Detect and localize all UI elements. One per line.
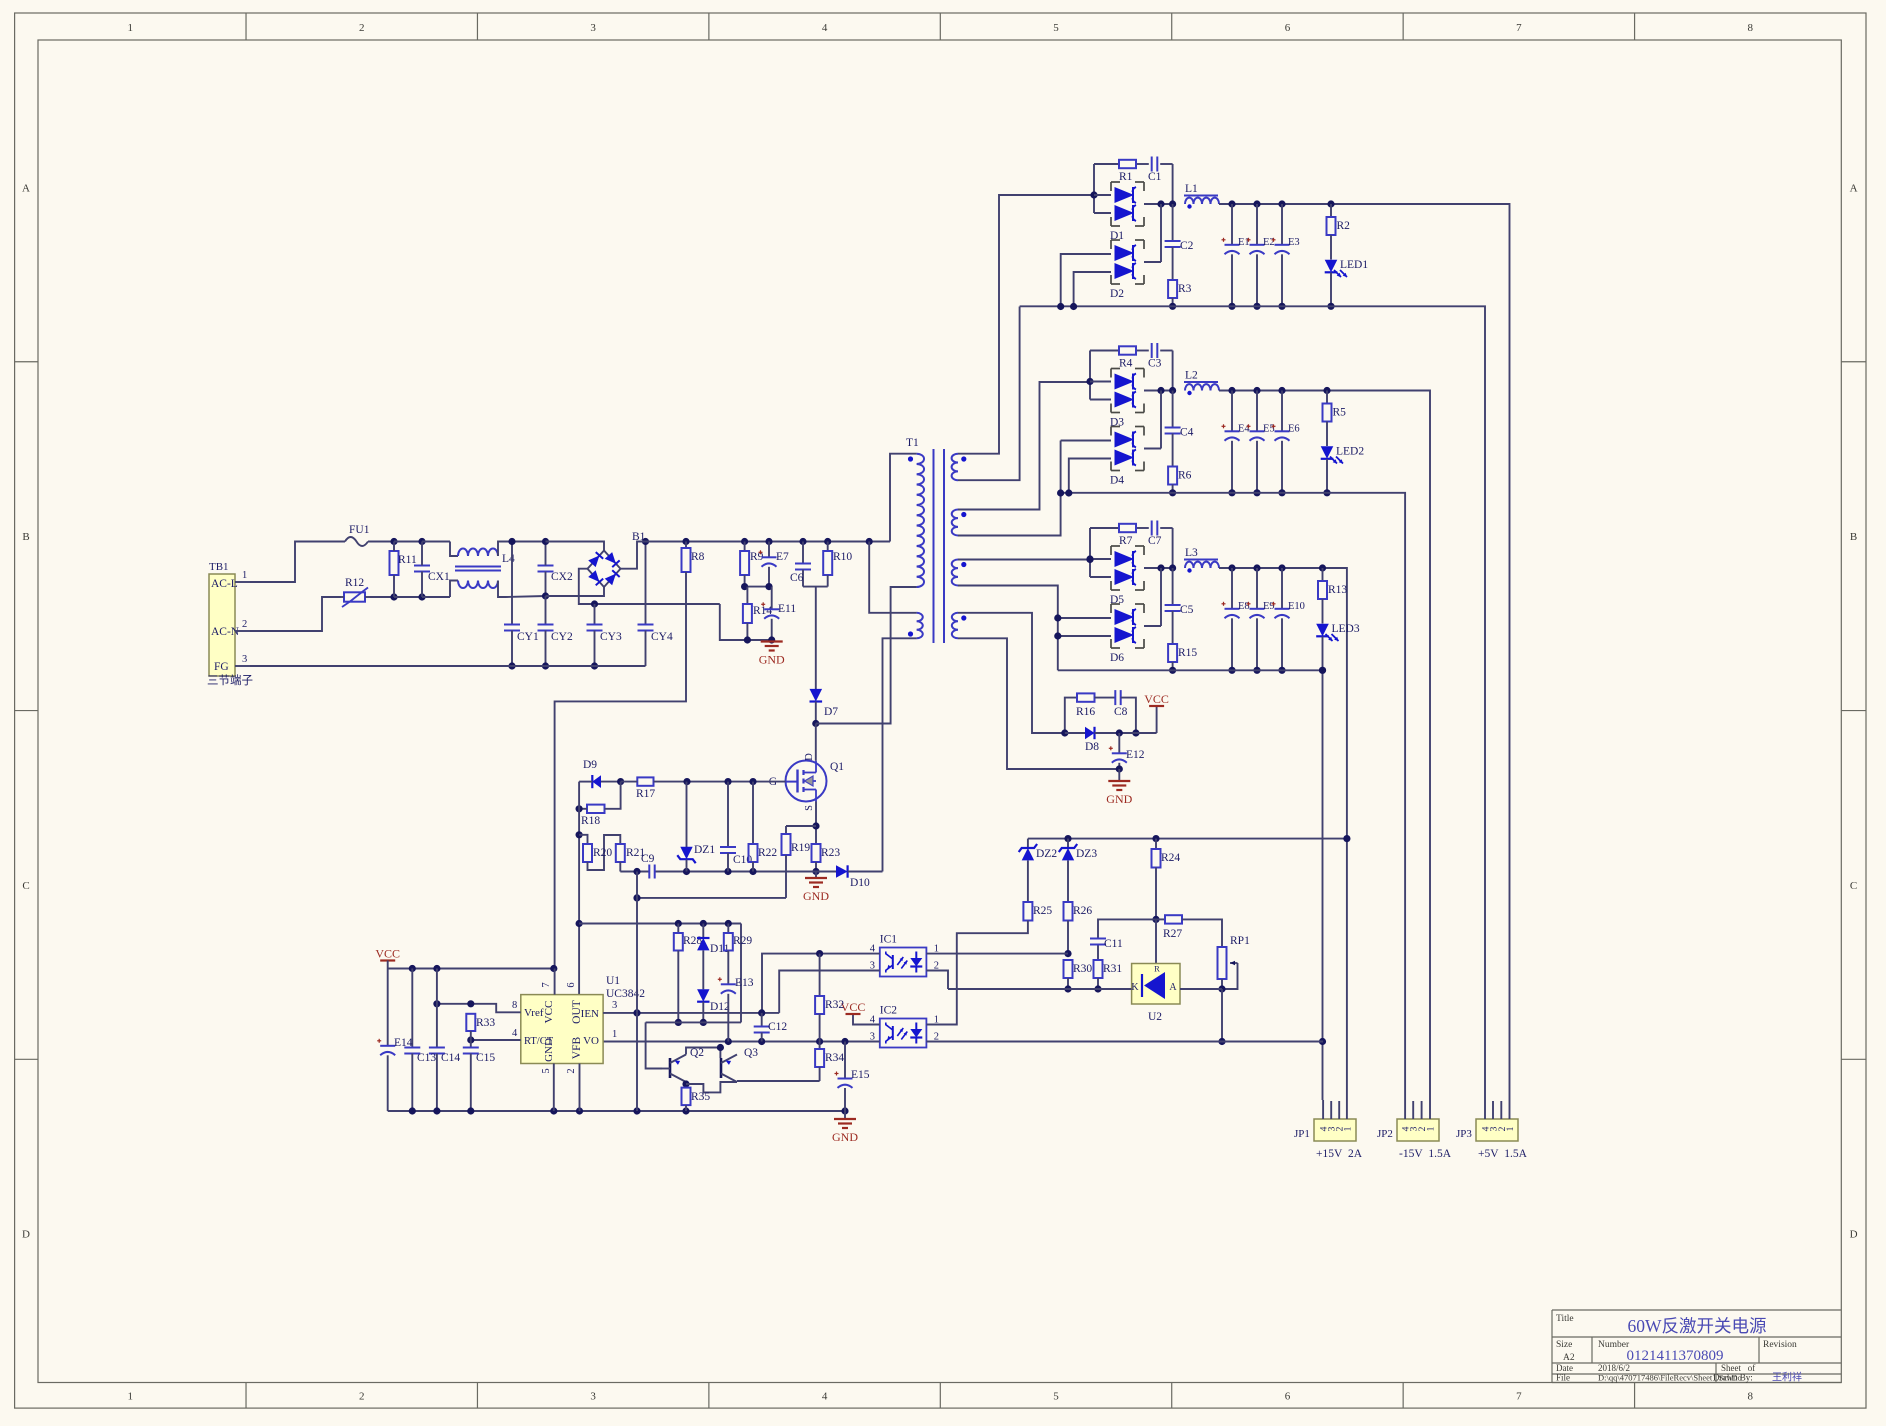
pin 4 JP2 bbox=[1404, 1100, 1406, 1119]
resistor R15 bbox=[1168, 644, 1177, 662]
resistor R27 bbox=[1156, 918, 1165, 920]
capacitor C12 bbox=[761, 1013, 763, 1027]
pin 2 JP2 bbox=[1421, 1101, 1423, 1119]
svg-text:U1: U1 bbox=[606, 975, 620, 987]
wire R27 to RP1 bbox=[1182, 919, 1222, 947]
LED LED3 bbox=[1322, 599, 1324, 624]
pin 2 TB1 bbox=[235, 630, 250, 632]
diode pack D2 bbox=[1111, 239, 1120, 241]
wire snubber R16C8 left bbox=[1065, 698, 1077, 733]
wire Q2 collector rail bbox=[686, 1048, 720, 1059]
resistor R4 bbox=[1119, 346, 1136, 354]
svg-text:C10: C10 bbox=[733, 854, 752, 866]
wire varistor to node bbox=[370, 596, 394, 598]
resistor R34 bbox=[819, 1042, 821, 1050]
svg-text:D2: D2 bbox=[1110, 288, 1124, 300]
svg-text:Number: Number bbox=[1598, 1340, 1630, 1350]
wire primary bottom bbox=[891, 586, 917, 588]
optocoupler IC1 bbox=[880, 948, 927, 977]
wire output rail L3 bbox=[1219, 568, 1347, 1100]
pin 3 JP3 bbox=[1492, 1101, 1494, 1119]
transformer T1 secondary winding 3 bbox=[952, 560, 958, 586]
svg-text:R17: R17 bbox=[636, 788, 655, 800]
capacitor E15 bbox=[844, 1042, 846, 1079]
inductor L1 bbox=[1184, 195, 1218, 197]
svg-text:GND: GND bbox=[759, 653, 785, 667]
capacitor CY2 bbox=[545, 596, 547, 625]
wire secondary3 bottom to rail3 bbox=[958, 586, 1058, 671]
svg-text:E7: E7 bbox=[776, 551, 789, 563]
svg-text:C2: C2 bbox=[1180, 240, 1194, 252]
svg-text:D7: D7 bbox=[824, 706, 838, 718]
wire VCC rail bbox=[388, 968, 555, 970]
resistor R16 bbox=[1077, 693, 1095, 701]
wire output rail L2 bbox=[1219, 391, 1430, 1101]
resistor R3 bbox=[1168, 280, 1177, 298]
resistor R14 bbox=[746, 587, 748, 604]
capacitor E2 bbox=[1256, 204, 1258, 245]
svg-text:R3: R3 bbox=[1178, 283, 1192, 295]
wire snubber rail R1C1 bbox=[1094, 163, 1119, 165]
svg-text:R25: R25 bbox=[1033, 905, 1052, 917]
wire IC2 pin4 to VCC bbox=[853, 1014, 880, 1025]
svg-text:1: 1 bbox=[1343, 1126, 1353, 1131]
resistor R30 bbox=[1064, 960, 1073, 978]
resistor R13 bbox=[1322, 568, 1324, 581]
inductor L3 bbox=[1184, 559, 1218, 561]
UC3842 U1 bbox=[521, 995, 603, 1064]
svg-text:R30: R30 bbox=[1073, 963, 1092, 975]
capacitor C15 bbox=[470, 1040, 472, 1048]
wire secondary4 bottom to aux ground bbox=[958, 638, 1119, 769]
resistor R2 bbox=[1330, 204, 1332, 217]
svg-text:C6: C6 bbox=[790, 572, 804, 584]
resistor R26 bbox=[1064, 902, 1073, 921]
connector JP3 bbox=[1476, 1119, 1518, 1141]
wire clamp return to primary bbox=[816, 587, 917, 724]
wire node to CX1 bbox=[394, 541, 422, 543]
wire R19 to sense node bbox=[637, 897, 786, 899]
wire sense column bbox=[636, 872, 638, 1013]
svg-text:3: 3 bbox=[590, 1391, 596, 1403]
svg-text:VCC: VCC bbox=[841, 1000, 866, 1014]
transformer T1 secondary winding 4 aux bbox=[952, 613, 958, 639]
svg-text:R10: R10 bbox=[833, 551, 852, 563]
potentiometer RP1 bbox=[1218, 947, 1227, 979]
svg-text:A2: A2 bbox=[1563, 1353, 1575, 1363]
wire RP1 bottom to rail bbox=[1221, 989, 1223, 1042]
diode pack D4 bbox=[1111, 426, 1120, 428]
svg-text:GND: GND bbox=[1106, 792, 1132, 806]
capacitor C7 bbox=[1151, 521, 1153, 536]
diode D11 bbox=[702, 924, 704, 939]
svg-text:R7: R7 bbox=[1119, 535, 1133, 547]
capacitor CY4 bbox=[645, 542, 647, 625]
svg-text:C13: C13 bbox=[417, 1052, 436, 1064]
wire D5 anodes bbox=[1089, 528, 1091, 577]
wire OUT line bbox=[578, 782, 580, 995]
diode D7 bbox=[810, 689, 823, 702]
capacitor CX2 bbox=[538, 565, 554, 567]
diode D12 bbox=[697, 989, 709, 1001]
svg-text:Size: Size bbox=[1556, 1340, 1572, 1350]
wire IC1 pin4 bbox=[762, 954, 880, 1013]
transistor Q2 bbox=[669, 1058, 672, 1078]
transformer T1 secondary winding 2 bbox=[952, 510, 958, 536]
wire C6/R10 bottom bbox=[803, 586, 828, 588]
wire IC2 pin3 line bbox=[603, 1041, 880, 1043]
ground GND aux bbox=[1118, 769, 1120, 781]
wire B+ rail bbox=[637, 541, 890, 543]
zener DZ1 bbox=[686, 782, 688, 848]
svg-text:2: 2 bbox=[242, 619, 247, 630]
capacitor E8 bbox=[1231, 568, 1233, 609]
svg-text:JP1: JP1 bbox=[1294, 1128, 1310, 1140]
svg-text:Revision: Revision bbox=[1763, 1340, 1797, 1350]
pin 4 JP3 bbox=[1484, 1100, 1486, 1119]
wire snubber rail R4C3 bbox=[1090, 350, 1119, 352]
pin 2 JP1 bbox=[1338, 1101, 1340, 1119]
diode pack D5 bbox=[1111, 545, 1120, 547]
svg-text:AC-L: AC-L bbox=[211, 578, 238, 590]
wire U2 A line bbox=[1180, 988, 1222, 990]
diode D9 bbox=[591, 775, 593, 788]
wire AC-N to bridge bottom bbox=[546, 587, 605, 596]
svg-text:R13: R13 bbox=[1328, 584, 1347, 596]
svg-text:DZ3: DZ3 bbox=[1076, 848, 1097, 860]
wire FG rail bbox=[250, 665, 646, 667]
svg-text:R23: R23 bbox=[821, 847, 840, 859]
zener DZ3 bbox=[1067, 839, 1069, 848]
svg-text:5: 5 bbox=[1053, 22, 1059, 34]
svg-text:C5: C5 bbox=[1180, 604, 1194, 616]
svg-text:D12: D12 bbox=[710, 1001, 730, 1013]
svg-text:A: A bbox=[22, 182, 30, 194]
diode pack D3 bbox=[1111, 368, 1120, 370]
svg-text:C15: C15 bbox=[476, 1052, 495, 1064]
capacitor E3 bbox=[1281, 204, 1283, 245]
svg-text:R24: R24 bbox=[1161, 852, 1180, 864]
svg-text:7: 7 bbox=[1516, 22, 1522, 34]
capacitor E13 bbox=[721, 983, 736, 985]
wire IC2 pin1 bbox=[926, 1024, 956, 1026]
svg-text:Q1: Q1 bbox=[830, 761, 844, 773]
svg-text:1: 1 bbox=[1427, 1126, 1437, 1131]
resistor R11 bbox=[390, 551, 399, 575]
resistor R5 bbox=[1326, 391, 1328, 404]
svg-text:D11: D11 bbox=[710, 943, 730, 955]
svg-text:0121411370809: 0121411370809 bbox=[1627, 1348, 1724, 1364]
wire Q2 emitter staircase bbox=[685, 1082, 687, 1088]
wire secondary1 top to D1 bbox=[958, 195, 1094, 454]
svg-text:C3: C3 bbox=[1148, 358, 1162, 370]
svg-text:7: 7 bbox=[1516, 1391, 1522, 1403]
svg-text:2018/6/2: 2018/6/2 bbox=[1598, 1363, 1630, 1373]
svg-text:E12: E12 bbox=[1126, 749, 1145, 761]
pin 7 U1 bbox=[554, 969, 556, 995]
svg-text:8: 8 bbox=[512, 1000, 517, 1011]
svg-text:DZ1: DZ1 bbox=[694, 844, 715, 856]
svg-text:Drawn By:: Drawn By: bbox=[1713, 1373, 1753, 1383]
svg-text:5: 5 bbox=[541, 1068, 552, 1073]
svg-text:R15: R15 bbox=[1178, 647, 1197, 659]
svg-text:E11: E11 bbox=[778, 603, 796, 615]
pin 3 TB1 bbox=[235, 665, 250, 667]
ground GND source bbox=[815, 872, 817, 879]
transformer T1 left aux winding bbox=[917, 613, 923, 639]
svg-text:D8: D8 bbox=[1085, 741, 1099, 753]
svg-text:1: 1 bbox=[128, 1391, 134, 1403]
svg-text:GND: GND bbox=[803, 889, 829, 903]
wire fuse to node bbox=[368, 541, 394, 543]
diode pack D6 bbox=[1111, 603, 1120, 605]
svg-text:C11: C11 bbox=[1104, 938, 1123, 950]
optocoupler IC2 bbox=[880, 1019, 927, 1048]
wire choke to CX2 bottom bbox=[506, 596, 546, 597]
svg-text:D: D bbox=[804, 753, 815, 761]
svg-text:E14: E14 bbox=[394, 1037, 413, 1049]
resistor R1 bbox=[1119, 160, 1136, 168]
resistor R32 bbox=[819, 954, 821, 996]
bridge rectifier B1 bbox=[588, 551, 621, 588]
transformer T1 primary winding bbox=[890, 454, 917, 542]
svg-text:6: 6 bbox=[1285, 22, 1291, 34]
capacitor C1 bbox=[1151, 157, 1153, 172]
fuse FU1 bbox=[345, 537, 368, 546]
svg-text:C8: C8 bbox=[1114, 706, 1128, 718]
wire bridge - output bbox=[579, 569, 720, 604]
svg-text:C12: C12 bbox=[768, 1021, 787, 1033]
svg-text:VCC: VCC bbox=[543, 1001, 555, 1024]
svg-text:R1: R1 bbox=[1119, 171, 1133, 183]
capacitor E12 bbox=[1118, 733, 1120, 753]
pin 1 JP3 bbox=[1509, 1100, 1511, 1119]
svg-text:VCC: VCC bbox=[375, 947, 400, 961]
svg-text:CX1: CX1 bbox=[428, 571, 450, 583]
wire secondary3 top to D5 bbox=[958, 559, 1090, 561]
svg-text:L3: L3 bbox=[1185, 547, 1198, 559]
svg-text:B: B bbox=[1850, 531, 1857, 543]
svg-text:60W反激开关电源: 60W反激开关电源 bbox=[1627, 1316, 1766, 1336]
svg-text:CY2: CY2 bbox=[551, 631, 573, 643]
diode D8 bbox=[1065, 732, 1085, 734]
svg-text:三节端子: 三节端子 bbox=[207, 674, 253, 687]
capacitor C8 bbox=[1095, 697, 1116, 699]
TL431 U2 bbox=[1132, 964, 1180, 1005]
svg-text:R26: R26 bbox=[1073, 905, 1092, 917]
svg-text:U2: U2 bbox=[1148, 1011, 1162, 1023]
svg-text:R31: R31 bbox=[1103, 963, 1122, 975]
wire AC-N to varistor bbox=[250, 597, 341, 631]
wire drive rail drop bbox=[740, 924, 742, 1023]
pin 5 U1 bbox=[553, 1064, 555, 1112]
wire bridge + output bbox=[621, 542, 687, 569]
svg-text:DZ2: DZ2 bbox=[1036, 848, 1057, 860]
wire drive low rail bbox=[646, 1021, 741, 1023]
svg-text:IC1: IC1 bbox=[880, 934, 898, 946]
wire left aux bottom to D10 bbox=[883, 638, 917, 871]
ground GND primary bbox=[771, 641, 773, 644]
svg-text:R8: R8 bbox=[691, 551, 705, 563]
connector JP2 bbox=[1397, 1119, 1439, 1141]
wire 0V rail section 1 bbox=[1020, 306, 1485, 1100]
wire D6 output bbox=[1144, 625, 1161, 627]
resistor R23 bbox=[812, 844, 821, 862]
wire R9/E7 mid rail bbox=[745, 586, 772, 588]
pin 2 U1 bbox=[579, 1064, 581, 1112]
pin 1 JP1 bbox=[1346, 1100, 1348, 1119]
wire D6 anode upper bbox=[1058, 617, 1111, 619]
svg-text:D10: D10 bbox=[850, 877, 870, 889]
capacitor C13 bbox=[411, 969, 413, 1048]
wire secondary2 bottom to rail2 bbox=[958, 441, 1061, 536]
wire D3 output bbox=[1144, 390, 1173, 392]
wire primary ground rail bbox=[744, 636, 751, 643]
svg-text:C14: C14 bbox=[441, 1052, 460, 1064]
wire D1 anodes bbox=[1093, 164, 1095, 213]
svg-text:T1: T1 bbox=[906, 437, 919, 449]
svg-text:-15V 1.5A: -15V 1.5A bbox=[1399, 1148, 1452, 1160]
pin 8 U1 bbox=[437, 1004, 521, 1013]
svg-text:3: 3 bbox=[590, 22, 596, 34]
wire D3 anodes bbox=[1089, 351, 1091, 400]
wire 0V rail section 3 bbox=[1058, 669, 1323, 671]
svg-text:R22: R22 bbox=[758, 847, 777, 859]
svg-text:R12: R12 bbox=[345, 577, 364, 589]
varistor R12 bbox=[344, 592, 365, 601]
svg-text:6: 6 bbox=[566, 982, 577, 987]
resistor R22 bbox=[752, 782, 754, 844]
svg-text:1: 1 bbox=[1506, 1126, 1516, 1131]
wire D6 anode lower bbox=[1058, 635, 1111, 637]
svg-text:R: R bbox=[1154, 964, 1160, 974]
mosfet Q1 bbox=[786, 761, 827, 802]
svg-text:R35: R35 bbox=[691, 1091, 710, 1103]
wire clamp to D7 bbox=[815, 587, 817, 690]
svg-text:LED3: LED3 bbox=[1332, 623, 1360, 635]
resistor R6 bbox=[1168, 467, 1177, 485]
svg-text:R19: R19 bbox=[791, 842, 810, 854]
wire gate rail bbox=[579, 781, 592, 783]
svg-text:L4: L4 bbox=[502, 553, 515, 565]
svg-text:R5: R5 bbox=[1333, 407, 1347, 419]
wire IC1 pin2 to K line bbox=[926, 971, 948, 990]
wire choke to CX2 top bbox=[506, 541, 546, 543]
svg-text:8: 8 bbox=[1748, 22, 1754, 34]
svg-text:FG: FG bbox=[214, 661, 229, 673]
wire 0V rail section 2 bbox=[1061, 493, 1406, 1100]
capacitor CY3 bbox=[594, 604, 596, 625]
svg-text:E3: E3 bbox=[1288, 237, 1300, 248]
wire D4 anode lower to rail2 bbox=[1069, 459, 1111, 494]
capacitor CY1 bbox=[511, 542, 513, 625]
svg-text:CY1: CY1 bbox=[517, 631, 539, 643]
svg-text:D9: D9 bbox=[583, 759, 597, 771]
wire CX2 to bridge top bbox=[546, 542, 605, 551]
capacitor C5 bbox=[1172, 568, 1174, 605]
svg-text:R16: R16 bbox=[1076, 706, 1095, 718]
wire CX1 to choke bbox=[422, 541, 450, 543]
wire D2 output bbox=[1144, 261, 1161, 263]
svg-text:CX2: CX2 bbox=[551, 571, 573, 583]
resistor R9 bbox=[741, 538, 748, 545]
svg-text:4: 4 bbox=[822, 1391, 828, 1403]
svg-text:1: 1 bbox=[242, 570, 247, 581]
svg-text:R4: R4 bbox=[1119, 358, 1133, 370]
svg-text:王利祥: 王利祥 bbox=[1772, 1371, 1802, 1384]
diode pack D1 bbox=[1111, 181, 1120, 183]
resistor R7 bbox=[1119, 524, 1136, 532]
wire secondary1 bottom to 0V rail1 bbox=[958, 307, 1020, 481]
wire D2 anode lower to rail1 bbox=[1074, 272, 1111, 307]
svg-text:Sheet of: Sheet of bbox=[1721, 1363, 1755, 1373]
svg-text:C4: C4 bbox=[1180, 427, 1194, 439]
svg-text:Title: Title bbox=[1556, 1314, 1574, 1324]
wire AC-L to fuse bbox=[250, 542, 345, 583]
svg-text:1: 1 bbox=[128, 22, 134, 34]
svg-text:D: D bbox=[22, 1229, 30, 1241]
wire R34 to Q3 bbox=[737, 1080, 820, 1082]
wire IC1 pin3 bbox=[779, 971, 880, 1013]
capacitor E1 bbox=[1231, 204, 1233, 245]
svg-text:R32: R32 bbox=[825, 999, 844, 1011]
svg-text:Q3: Q3 bbox=[744, 1047, 758, 1059]
svg-text:D4: D4 bbox=[1110, 475, 1124, 487]
svg-text:JP2: JP2 bbox=[1377, 1128, 1393, 1140]
svg-text:GND: GND bbox=[543, 1038, 555, 1062]
inductor L2 bbox=[1184, 381, 1218, 383]
capacitor C10 bbox=[727, 782, 729, 847]
capacitor C9 bbox=[648, 865, 650, 879]
svg-text:R28: R28 bbox=[683, 935, 702, 947]
svg-text:+15V 2A: +15V 2A bbox=[1316, 1148, 1363, 1160]
capacitor C6 bbox=[799, 538, 806, 545]
svg-text:IEN: IEN bbox=[581, 1008, 599, 1020]
pin 1 TB1 bbox=[235, 581, 250, 583]
wire output rail L1 bbox=[1219, 204, 1510, 1100]
title block bbox=[1552, 1309, 1841, 1311]
wire D1 output bbox=[1144, 203, 1173, 205]
wire C9 rail bbox=[620, 871, 649, 873]
pin 4 JP1 bbox=[1322, 1100, 1324, 1119]
zener DZ2 bbox=[1027, 839, 1029, 848]
resistor R10 bbox=[824, 538, 831, 545]
svg-text:B: B bbox=[22, 531, 29, 543]
svg-text:IC2: IC2 bbox=[880, 1005, 898, 1017]
capacitor E7 bbox=[765, 538, 772, 545]
wire drive top rail bbox=[579, 923, 741, 925]
svg-text:E10: E10 bbox=[1288, 601, 1305, 612]
wire snubber rail R7C7 bbox=[1090, 527, 1119, 529]
wire IC1 pin1 bbox=[926, 953, 1068, 955]
svg-text:LED1: LED1 bbox=[1340, 259, 1368, 271]
svg-text:2: 2 bbox=[566, 1068, 577, 1073]
svg-text:R27: R27 bbox=[1163, 928, 1182, 940]
wire negative bus to primary ground bbox=[720, 604, 772, 640]
svg-text:3: 3 bbox=[612, 1000, 617, 1011]
resistor R20 bbox=[579, 835, 587, 844]
wire left aux top to B+ rail bbox=[866, 538, 873, 545]
svg-text:E13: E13 bbox=[735, 977, 754, 989]
wire D2 anode upper to rail1 bbox=[1061, 254, 1111, 307]
svg-text:K: K bbox=[1131, 982, 1139, 993]
svg-text:VFB: VFB bbox=[571, 1036, 583, 1059]
svg-text:VO: VO bbox=[583, 1035, 599, 1047]
svg-text:2: 2 bbox=[359, 1391, 365, 1403]
svg-text:+5V 1.5A: +5V 1.5A bbox=[1478, 1148, 1528, 1160]
svg-text:R20: R20 bbox=[593, 847, 612, 859]
capacitor E11 bbox=[771, 587, 773, 610]
